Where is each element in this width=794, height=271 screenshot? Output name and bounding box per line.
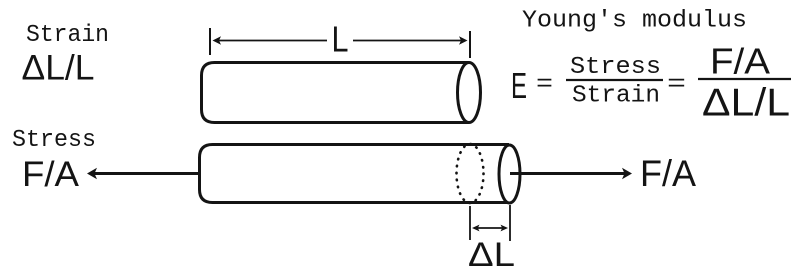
bottom cylinder body (200, 145, 510, 203)
label F/A right (640, 153, 696, 194)
label Strain (26, 22, 109, 49)
svg-text:Stress: Stress (12, 127, 96, 154)
label L dimension (332, 19, 349, 60)
label Stress left (12, 127, 96, 154)
dimension line L left segment with left arrowhead (213, 36, 328, 45)
dimension tick left of L (209, 28, 211, 55)
left force arrow wire (87, 168, 201, 179)
svg-text:ΔL/L: ΔL/L (702, 82, 790, 125)
top cylinder body (202, 63, 470, 123)
delta-L double-headed dimension arrow (472, 225, 508, 232)
label F/A left (22, 155, 80, 194)
equation first equals sign (536, 72, 553, 99)
bottom cylinder right end ellipse (499, 145, 520, 203)
svg-text:Strain: Strain (572, 83, 660, 110)
equation second equals sign (667, 72, 686, 99)
equation fraction bar 1 (566, 79, 663, 81)
svg-text:Young's modulus: Young's modulus (522, 8, 747, 35)
svg-text:Strain: Strain (26, 22, 109, 49)
dimension tick right of L (469, 31, 471, 58)
top cylinder right end ellipse (458, 63, 481, 123)
equation denominator Strain (572, 83, 660, 110)
dimension line L right segment with right arrowhead (353, 36, 468, 45)
delta-L dimension tick right (509, 205, 511, 241)
svg-text:=: = (667, 72, 686, 99)
equation numerator F/A (710, 41, 770, 82)
equation E (511, 65, 527, 106)
delta-L dimension tick left (469, 206, 471, 240)
svg-text:ΔL/L: ΔL/L (22, 49, 95, 88)
svg-text:F/A: F/A (640, 153, 696, 194)
label Young's modulus (522, 8, 747, 35)
equation numerator Stress (570, 54, 661, 81)
bottom cylinder dotted cross-section ellipse (457, 144, 484, 203)
svg-text:F/A: F/A (710, 41, 770, 82)
equation denominator delta-L-over-L (702, 82, 790, 125)
svg-text:Stress: Stress (570, 54, 661, 81)
svg-text:L: L (332, 19, 349, 60)
right force arrow wire (510, 168, 632, 179)
svg-text:E: E (511, 65, 527, 106)
svg-text:=: = (536, 72, 553, 99)
label delta-L-over-L top-left (22, 49, 95, 88)
label delta-L bottom (468, 236, 515, 271)
svg-text:F/A: F/A (22, 155, 80, 194)
svg-text:ΔL: ΔL (468, 236, 515, 271)
equation fraction bar 2 (698, 78, 791, 80)
